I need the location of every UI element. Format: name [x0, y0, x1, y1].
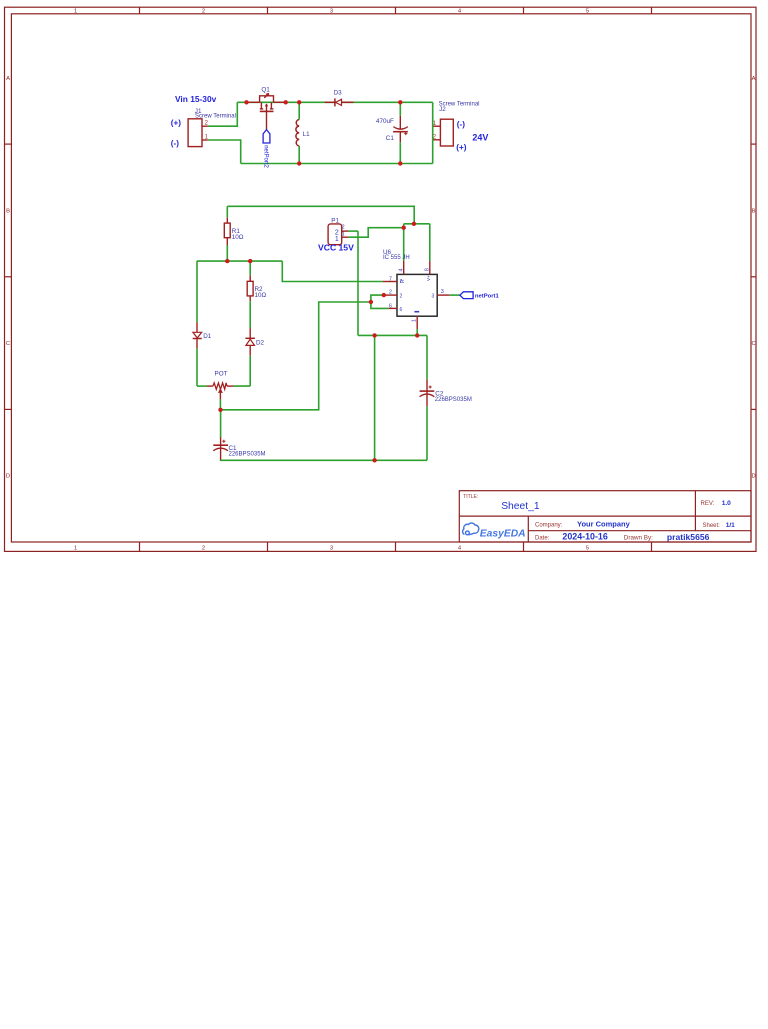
- capacitor C1 (bottom circuit): [213, 438, 228, 460]
- junction at R1 bottom: [225, 259, 229, 263]
- U6 pin 7 stub: [383, 281, 397, 283]
- capacitor C2: [420, 379, 435, 406]
- svg-text:24V: 24V: [472, 133, 488, 143]
- wire gnd vertical riser: [374, 335, 376, 460]
- junction at R2 top: [248, 259, 252, 263]
- svg-text:8: 8: [425, 268, 431, 271]
- svg-text:Drawn By:: Drawn By:: [624, 535, 653, 542]
- U6 pin 2 stub: [384, 294, 397, 296]
- junction at Q1 drain pin: [284, 100, 288, 104]
- P1 pin 1 stub: [342, 236, 349, 238]
- svg-text:Sheet:: Sheet:: [703, 523, 721, 529]
- svg-text:D: D: [752, 474, 756, 480]
- svg-text:5: 5: [586, 9, 589, 15]
- wire VCC node segment: [404, 223, 430, 225]
- wire P1 pin1 out: [348, 228, 403, 238]
- svg-text:A: A: [752, 76, 756, 82]
- resistor R1: [224, 218, 230, 245]
- wire output branch vertical: [432, 102, 434, 163]
- wire POT right to D2 branch: [234, 385, 251, 387]
- wire trigger tie pins 2-6: [371, 295, 388, 308]
- svg-text:Q1: Q1: [261, 87, 270, 94]
- svg-text:D2: D2: [256, 340, 265, 347]
- U6 pin 1 stub: [416, 316, 418, 329]
- J2 pin 1 stub: [434, 125, 441, 127]
- wire R2 to D2: [249, 301, 251, 328]
- EasyEDA logo cloud: [463, 523, 479, 535]
- net flag netPort2: [263, 130, 270, 143]
- junction at VCC rail drop: [412, 222, 416, 226]
- svg-text:IC 555 JH: IC 555 JH: [383, 255, 410, 261]
- title block: [459, 491, 751, 542]
- svg-text:(+): (+): [171, 119, 182, 128]
- wire D1 to POT: [196, 349, 198, 387]
- wire to 555 pin4: [403, 224, 405, 261]
- junction at trigger tie: [369, 300, 373, 304]
- svg-text:226BPS035M: 226BPS035M: [229, 452, 266, 458]
- wire C1 bottom stub: [399, 142, 401, 163]
- wire R1 top stub: [226, 206, 228, 217]
- svg-text:2: 2: [389, 290, 392, 296]
- svg-text:1: 1: [74, 9, 77, 15]
- junction at C1 bottom: [398, 161, 402, 165]
- svg-text:R: R: [400, 279, 406, 283]
- resistor R2: [247, 275, 253, 301]
- svg-text:REV:: REV:: [701, 501, 715, 507]
- svg-text:2: 2: [202, 545, 205, 551]
- svg-text:3: 3: [330, 9, 333, 15]
- svg-text:A: A: [6, 76, 10, 82]
- U6 pin 1 name GND: [414, 311, 419, 313]
- U6 pin 8 stub: [429, 261, 431, 274]
- svg-text:D1: D1: [203, 333, 212, 340]
- header P1 body: [328, 224, 342, 245]
- svg-text:4: 4: [399, 268, 405, 271]
- svg-text:3: 3: [330, 545, 333, 551]
- svg-text:D3: D3: [334, 90, 343, 97]
- wire J1 pin2 to top rail: [208, 102, 238, 126]
- wire to 555 pin8: [429, 224, 431, 261]
- svg-text:10Ω: 10Ω: [232, 234, 244, 241]
- connector J1 body: [188, 119, 202, 147]
- wire U6 pin1 down: [416, 329, 418, 335]
- U6 pin 3 stub: [437, 294, 449, 296]
- wire L1 bottom stub: [298, 146, 300, 164]
- svg-text:Your Company: Your Company: [577, 520, 631, 529]
- svg-text:2024-10-16: 2024-10-16: [562, 532, 607, 542]
- svg-text:2: 2: [400, 294, 403, 300]
- svg-text:1.0: 1.0: [722, 500, 731, 507]
- wire node row y335: [358, 334, 427, 336]
- J1 pin 2 stub: [202, 125, 208, 127]
- wire C1 top stub: [399, 102, 401, 115]
- wire J1 pin1 to bottom rail: [208, 140, 241, 164]
- svg-text:1: 1: [342, 231, 345, 237]
- J2 pin 2 stub: [434, 139, 441, 141]
- junction at Q1 source pin: [244, 100, 248, 104]
- svg-text:EasyEDA: EasyEDA: [480, 529, 526, 540]
- wire U6 pin3 out: [450, 294, 460, 296]
- junction at P1 pin1 feed: [402, 226, 406, 230]
- svg-text:3: 3: [441, 289, 444, 295]
- svg-text:(-): (-): [457, 120, 465, 129]
- junction at L1 bottom: [297, 161, 301, 165]
- wire R1 bottom stub: [226, 245, 228, 261]
- svg-text:B: B: [752, 209, 756, 215]
- svg-text:POT: POT: [215, 370, 228, 377]
- svg-text:(-): (-): [171, 139, 179, 148]
- svg-text:1/1: 1/1: [726, 522, 735, 529]
- U6 pin 4 stub: [403, 261, 405, 274]
- junction at L1 top: [297, 100, 301, 104]
- wire C2 bottom stub: [426, 406, 428, 460]
- potentiometer POT: [207, 383, 234, 400]
- junction at POT wiper node: [218, 408, 222, 412]
- svg-text:226BPS035M: 226BPS035M: [435, 397, 472, 403]
- wire POT wiper down: [219, 399, 221, 409]
- transistor Q1 symbol: [247, 94, 286, 130]
- svg-text:pratik5656: pratik5656: [667, 532, 710, 542]
- net flag netPort1: [460, 292, 473, 299]
- svg-text:7: 7: [389, 277, 392, 283]
- wire R2 top stub: [249, 261, 251, 275]
- junction at C1 top: [398, 100, 402, 104]
- wire wiper node to feedback: [220, 302, 371, 410]
- wire D2 to POT: [249, 356, 251, 386]
- svg-text:Company:: Company:: [535, 522, 563, 528]
- svg-text:Date:: Date:: [535, 535, 550, 541]
- svg-text:TITLE:: TITLE:: [463, 494, 478, 500]
- svg-text:D: D: [6, 474, 10, 480]
- svg-text:2: 2: [202, 9, 205, 15]
- svg-text:Vin 15-30v: Vin 15-30v: [175, 94, 217, 104]
- wire C2 top stub: [426, 335, 428, 379]
- svg-text:(+): (+): [456, 143, 467, 152]
- svg-text:netPort1: netPort1: [475, 294, 500, 300]
- wire L1 top stub: [298, 102, 300, 119]
- svg-text:J2: J2: [439, 106, 446, 113]
- connector J2 body: [440, 119, 453, 146]
- svg-text:V+: V+: [426, 275, 431, 281]
- svg-text:L1: L1: [303, 131, 311, 138]
- inductor L1: [296, 120, 299, 147]
- junction at ground riser top: [372, 333, 376, 337]
- svg-text:2: 2: [342, 225, 345, 231]
- wire to 555 pin7: [282, 261, 383, 281]
- junction at U6 pin1 node: [415, 333, 419, 337]
- svg-text:B: B: [6, 209, 10, 215]
- wire VCC top rail: [227, 206, 414, 224]
- svg-text:3: 3: [432, 294, 435, 300]
- svg-text:6: 6: [389, 303, 392, 309]
- svg-text:Sheet_1: Sheet_1: [501, 501, 540, 512]
- wire left branch down to D1: [196, 261, 198, 322]
- wire top rail: [237, 101, 432, 103]
- wire P1 pin2 vertical: [357, 231, 359, 335]
- svg-text:netPort2: netPort2: [262, 145, 268, 168]
- svg-text:5: 5: [586, 545, 589, 551]
- svg-text:C: C: [752, 341, 756, 347]
- wire P1 pin2 out: [348, 230, 358, 232]
- svg-text:10Ω: 10Ω: [255, 292, 267, 299]
- svg-text:1: 1: [74, 545, 77, 551]
- U6 pin 6 stub: [388, 307, 397, 309]
- wire ground rail bottom: [221, 459, 427, 462]
- wire node row y261: [197, 260, 282, 262]
- capacitor C1 symbol: [393, 116, 408, 143]
- J1 pin 1 stub: [202, 139, 208, 141]
- junction at ground rail: [372, 458, 376, 462]
- P1 pin 2 stub: [342, 230, 349, 232]
- diode D3: [325, 98, 354, 106]
- diode D2: [245, 328, 255, 356]
- wire bottom rail: [241, 163, 433, 165]
- junction at U6 pin2: [382, 293, 386, 297]
- wire POT left: [197, 385, 207, 387]
- svg-text:6: 6: [400, 307, 403, 313]
- svg-text:1: 1: [412, 319, 418, 322]
- wire C1 top stub (bottom circuit): [220, 410, 222, 438]
- svg-text:VCC 15V: VCC 15V: [318, 242, 354, 252]
- svg-text:C1: C1: [386, 135, 395, 142]
- svg-text:C: C: [6, 341, 10, 347]
- op-amp U6 555 chip body: [397, 274, 437, 316]
- svg-text:470uF: 470uF: [376, 118, 394, 125]
- diode D1: [193, 322, 202, 348]
